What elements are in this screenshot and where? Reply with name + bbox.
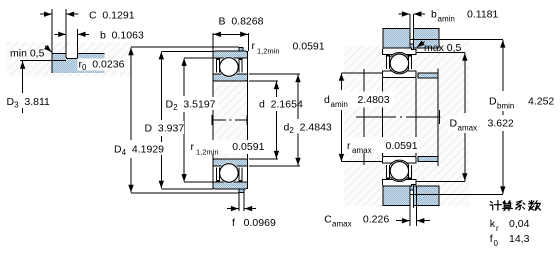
svg-text:r: r (347, 140, 351, 152)
groove slot (66, 46, 77, 59)
min 0,5 leader (45, 46, 52, 52)
glyph shu (529, 201, 541, 211)
svg-text:r: r (191, 141, 195, 153)
svg-text:C 0.1291: C 0.1291 (89, 10, 135, 22)
svg-text:B 0.8268: B 0.8268 (219, 16, 264, 28)
block top edge (52, 53, 105, 55)
Da top extension (416, 52, 465, 54)
f dimension arrows (227, 208, 239, 210)
C dimension arrows (40, 13, 52, 15)
top outer ring (213, 51, 248, 58)
D2 top extension (184, 57, 213, 59)
block left face + C extension (51, 9, 53, 73)
hatch backdrop right figure (344, 46, 384, 207)
snap ring top (410, 44, 414, 50)
Ca arrows (396, 220, 410, 222)
svg-text:bmin: bmin (497, 102, 514, 111)
svg-text:r: r (252, 40, 256, 52)
D3 groove level line (20, 59, 66, 61)
B right extension line (247, 33, 249, 51)
svg-text:r: r (496, 224, 499, 233)
svg-text:0.226: 0.226 (363, 214, 389, 226)
svg-text:0,04: 0,04 (509, 218, 530, 230)
label Dbmin (488, 93, 554, 109)
Db top extension (410, 39, 503, 41)
svg-text:0: 0 (494, 239, 499, 248)
glyph xi (516, 201, 525, 210)
d bottom extension (249, 158, 278, 160)
Ca extension lines (410, 186, 416, 226)
svg-text:0.1181: 0.1181 (467, 9, 498, 21)
glyph suan (503, 201, 513, 211)
centerline right figure (356, 116, 441, 118)
d2 bottom extension (249, 165, 300, 167)
top shields (386, 55, 411, 69)
svg-text:b: b (431, 9, 437, 21)
groove slot right wall (68, 29, 78, 59)
bearing bottom outer ring (383, 180, 417, 187)
bottom raceway gap (219, 163, 240, 184)
da bottom extension (341, 161, 382, 163)
centerline left figure (212, 119, 248, 121)
svg-text:D2 3.5197: D2 3.5197 (166, 99, 216, 113)
svg-text:14,3: 14,3 (509, 233, 530, 245)
CJK title 计算系数 (drawn strokes) (490, 201, 540, 211)
b_a groove walls extended (410, 14, 414, 44)
label Damax (448, 115, 513, 131)
D2 dimension line (183, 58, 185, 96)
label ramax (344, 137, 419, 153)
label r12min mid (188, 140, 264, 154)
housing bottom (383, 186, 439, 206)
hatch bore strip left figure (213, 81, 248, 159)
housing groove slot top (410, 27, 413, 44)
D4 top extension (131, 46, 239, 48)
housing groove slot bottom (410, 190, 413, 207)
bottom ball (220, 164, 239, 183)
svg-text:amax: amax (332, 220, 352, 229)
D4 bottom extension (131, 192, 239, 194)
d2 dimension line (297, 75, 299, 119)
svg-text:amin: amin (438, 15, 455, 24)
B dimension line (213, 33, 216, 35)
svg-text:d 2.1654: d 2.1654 (259, 99, 303, 111)
top raceway gap (219, 57, 240, 78)
label r0 value (78, 59, 129, 71)
max 0,5 leader (417, 42, 425, 48)
d2 top extension (249, 73, 300, 75)
svg-text:max 0,5: max 0,5 (424, 42, 462, 54)
D dimension line (160, 52, 162, 120)
label D4 (113, 142, 167, 155)
bearing top inner ring (383, 71, 417, 78)
bottom raceway groove arcs (390, 160, 408, 181)
outer ring block (52, 54, 105, 73)
groove slot left wall (66, 9, 68, 59)
shaft abutment top (418, 73, 438, 78)
svg-text:amax: amax (458, 124, 478, 133)
top snap ring tab (239, 47, 243, 51)
b_a arrows (399, 13, 410, 15)
svg-text:D3 3.811: D3 3.811 (7, 96, 51, 110)
shaft face line top (437, 68, 439, 166)
svg-text:k: k (490, 218, 496, 230)
bearing bottom inner ring (383, 156, 417, 163)
D4 dimension line (130, 48, 132, 140)
label d2 (282, 121, 335, 134)
top ball (220, 58, 239, 77)
D bottom extension (161, 188, 213, 190)
bottom shields (386, 165, 411, 179)
top inner ring (213, 74, 248, 81)
bottom raceway gap (389, 160, 410, 181)
top ball (390, 54, 408, 72)
label d (258, 98, 297, 110)
hatch backdrop detail view (6, 42, 132, 76)
bottom outer ring (213, 182, 248, 189)
label D (143, 121, 184, 134)
d top extension (249, 80, 278, 82)
top raceway groove arcs (390, 53, 408, 74)
housing top (383, 29, 439, 49)
D3 dimension line (22, 61, 24, 93)
svg-text:D4 4.1929: D4 4.1929 (114, 144, 164, 158)
bearing right face line (247, 51, 249, 189)
bearing top outer ring (383, 48, 417, 55)
label D2 (164, 97, 219, 110)
bottom shields (217, 168, 242, 182)
top raceway gap (389, 53, 410, 74)
svg-text:0.0591: 0.0591 (293, 41, 325, 53)
Dbmin dimension line (502, 40, 504, 91)
svg-text:D: D (489, 96, 497, 108)
label damin (320, 92, 394, 108)
svg-text:b 0.1063: b 0.1063 (100, 30, 144, 42)
Db bottom extension (410, 194, 503, 196)
svg-text:D 3.937: D 3.937 (145, 123, 185, 135)
bottom inner ring (213, 159, 248, 166)
bearing left face line (212, 33, 214, 189)
svg-text:2.4803: 2.4803 (358, 94, 390, 106)
snap ring bottom (410, 184, 414, 190)
svg-text:amin: amin (331, 100, 348, 109)
svg-text:1,2min: 1,2min (257, 47, 280, 56)
top shields (217, 58, 242, 72)
d dimension line (275, 82, 277, 98)
D top extension (161, 50, 213, 52)
svg-text:f 0.0969: f 0.0969 (232, 217, 276, 229)
da top extension (341, 72, 382, 74)
svg-text:0.0591: 0.0591 (386, 140, 418, 152)
Damax dimension line (464, 53, 466, 113)
svg-text:0.0591: 0.0591 (232, 141, 264, 153)
svg-text:d: d (324, 94, 330, 106)
damin dimension line (340, 73, 342, 90)
svg-text:1,2min: 1,2min (196, 148, 219, 157)
D2 bottom extension (184, 181, 213, 183)
svg-text:D: D (450, 118, 458, 130)
svg-text:4.252: 4.252 (528, 96, 554, 108)
svg-text:min 0,5: min 0,5 (10, 48, 45, 60)
b dimension arrows (55, 33, 66, 35)
ra extension line (363, 69, 365, 165)
svg-text:amax: amax (352, 146, 372, 155)
shaft abutment bottom (418, 156, 438, 161)
Da bottom extension (416, 180, 465, 182)
svg-text:3.622: 3.622 (488, 118, 514, 130)
bottom ball (390, 162, 408, 180)
glyph ji (490, 201, 501, 210)
bottom snap ring tab (239, 189, 244, 193)
f extension lines (239, 193, 244, 211)
svg-text:f: f (490, 233, 493, 245)
bearing face lines mid (383, 78, 417, 157)
